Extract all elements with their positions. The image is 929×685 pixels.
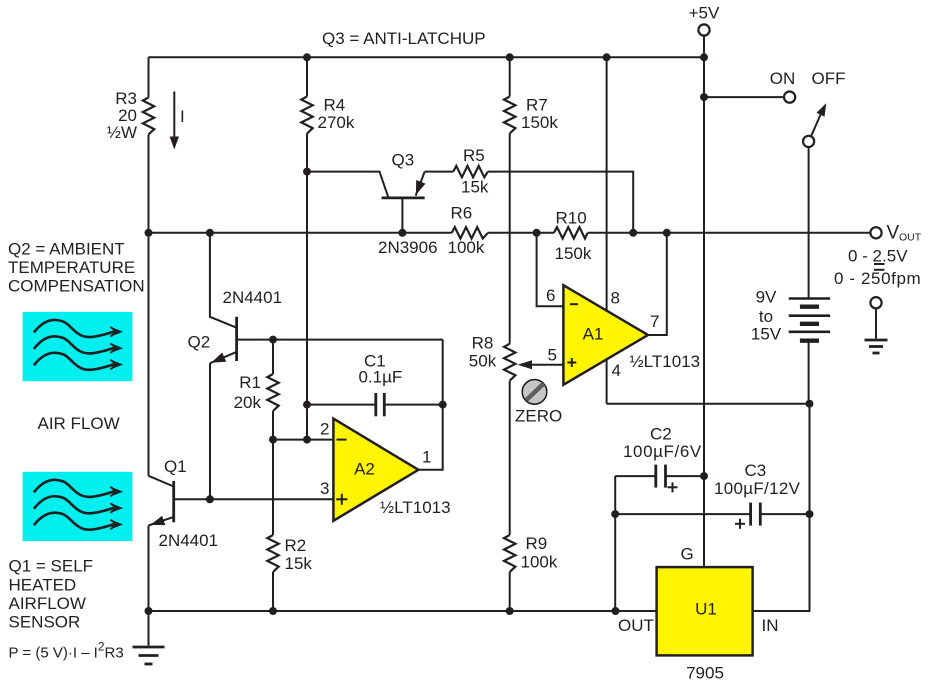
- svg-text:5: 5: [548, 346, 557, 365]
- svg-text:20k: 20k: [234, 393, 262, 412]
- svg-text:HEATED: HEATED: [9, 576, 77, 595]
- wire R7 column top: [509, 57, 511, 96]
- svg-text:OFF: OFF: [812, 69, 846, 88]
- svg-text:270k: 270k: [318, 113, 355, 132]
- capacitor C2: [615, 465, 704, 488]
- svg-text:150k: 150k: [521, 113, 558, 132]
- wire C2/C3 stub column: [614, 476, 616, 611]
- resistor R2: [267, 535, 278, 572]
- svg-text:2: 2: [320, 420, 329, 439]
- wire A2 feedback vertical: [418, 340, 442, 470]
- svg-text:C3: C3: [745, 461, 767, 480]
- svg-text:½LT1013: ½LT1013: [380, 498, 451, 517]
- node Q3 base-line junction: [303, 168, 311, 176]
- resistor R4: [301, 97, 312, 134]
- svg-text:C2: C2: [650, 425, 672, 444]
- svg-text:9V: 9V: [756, 288, 777, 307]
- label 9V to 15V: [751, 288, 782, 344]
- potentiometer R8: [504, 344, 515, 381]
- node C1 right: [439, 401, 447, 409]
- resistor R9: [504, 535, 515, 572]
- wire supply line behind A1 (pins 8/4): [606, 57, 608, 403]
- svg-text:0 - 2.5V: 0 - 2.5V: [848, 247, 908, 266]
- svg-text:150k: 150k: [555, 244, 592, 263]
- svg-text:7: 7: [650, 312, 659, 331]
- node pin2/R1: [269, 436, 277, 444]
- transistor Q1 collector (from left rail): [149, 476, 174, 487]
- svg-text:½LT1013: ½LT1013: [630, 352, 701, 371]
- label R8 50k: [469, 334, 497, 371]
- svg-text:50k: 50k: [469, 352, 497, 371]
- wire A1 output pin7: [648, 233, 667, 335]
- node pin7 junction: [663, 229, 671, 237]
- label A1 pins and name: [546, 286, 700, 380]
- svg-text:ZERO: ZERO: [515, 407, 562, 426]
- wire R2 lower lead / column: [272, 440, 274, 535]
- wire R8 to R9: [509, 381, 511, 535]
- resistor R1: [267, 374, 278, 411]
- svg-text:R2: R2: [285, 536, 307, 555]
- wire A1 pin5 with wiper arrow: [518, 360, 564, 369]
- transistor Q3 base wire: [401, 198, 403, 233]
- wire R4 column: [306, 57, 308, 96]
- ground symbol left: [133, 611, 165, 664]
- label Q2 = AMBIENT TEMPERATURE COMPENSATION: [8, 240, 145, 296]
- node supply top: [603, 53, 611, 61]
- svg-text:1: 1: [422, 448, 431, 467]
- node pin2/R4column: [303, 436, 311, 444]
- node switch feed junction: [700, 93, 708, 101]
- svg-text:I: I: [180, 107, 185, 126]
- label R2 15k: [285, 536, 313, 573]
- label R6 100k: [448, 204, 485, 258]
- label R7 150k: [521, 96, 558, 133]
- svg-text:R9: R9: [526, 534, 548, 553]
- wire R4 bottom down to pin2 wire: [306, 134, 308, 440]
- node R7 top: [506, 53, 514, 61]
- wire Q2 base to R1/C1: [237, 339, 443, 341]
- svg-text:OUT: OUT: [618, 616, 654, 635]
- wire switch to battery: [808, 147, 810, 298]
- svg-text:G: G: [681, 545, 694, 564]
- svg-text:COMPENSATION: COMPENSATION: [8, 277, 145, 296]
- svg-text:100µF/6V: 100µF/6V: [623, 442, 702, 461]
- svg-text:15k: 15k: [461, 178, 489, 197]
- node +5V rail junction: [700, 53, 708, 61]
- wire A2 pin2 input: [273, 439, 333, 441]
- transistor Q3 bar: [382, 196, 425, 199]
- node Q1 base / Q2 emitter junction: [206, 495, 214, 503]
- label C3: [714, 461, 801, 529]
- battery B1 9V-15V: [789, 299, 830, 341]
- current arrow I: [170, 92, 185, 150]
- svg-text:2N3906: 2N3906: [378, 238, 438, 257]
- svg-text:to: to: [759, 307, 773, 326]
- svg-text:15k: 15k: [285, 554, 313, 573]
- node Q2 collector junction: [206, 229, 214, 237]
- op-amp A2: [333, 419, 418, 521]
- label R3 20 1/2W: [107, 89, 137, 142]
- wire R9 to ground rail: [509, 572, 511, 611]
- svg-text:100k: 100k: [521, 553, 558, 572]
- label A2 pins and name: [320, 420, 451, 518]
- svg-text:R6: R6: [451, 204, 473, 223]
- transistor Q2 collector wire: [210, 233, 237, 328]
- svg-text:15V: 15V: [751, 325, 782, 344]
- svg-text:0.1µF: 0.1µF: [359, 368, 403, 387]
- svg-text:7905: 7905: [686, 664, 724, 683]
- resistor R6: [452, 227, 488, 238]
- label Q1 = SELF HEATED AIRFLOW SENSOR: [9, 557, 94, 632]
- svg-text:A2: A2: [354, 460, 375, 479]
- node R4 top: [303, 53, 311, 61]
- label C2: [623, 425, 702, 493]
- svg-text:AIR FLOW: AIR FLOW: [38, 414, 120, 433]
- terminal VOUT: [870, 223, 921, 244]
- wire R1 bottom lead: [272, 411, 274, 440]
- svg-text:6: 6: [546, 286, 555, 305]
- op-amp A1: [563, 285, 648, 385]
- resistor R5: [453, 166, 488, 177]
- wire ground rail: [149, 610, 657, 612]
- transistor Q3 emitter with arrow: [416, 172, 454, 196]
- svg-text:AIRFLOW: AIRFLOW: [9, 594, 86, 613]
- airflow box upper: [23, 312, 133, 381]
- svg-text:R10: R10: [556, 209, 587, 228]
- svg-text:Q2: Q2: [188, 333, 211, 352]
- label C1 0.1uF: [359, 352, 403, 387]
- svg-text:OUT: OUT: [899, 232, 922, 244]
- capacitor C1: [307, 393, 443, 416]
- node R5 drop junction: [629, 229, 637, 237]
- svg-text:100µF/12V: 100µF/12V: [714, 479, 801, 498]
- svg-text:2N4401: 2N4401: [223, 288, 283, 307]
- svg-text:8: 8: [611, 289, 620, 308]
- label R10 150k: [555, 209, 592, 264]
- svg-text:R8: R8: [472, 334, 494, 353]
- svg-text:4: 4: [612, 361, 621, 380]
- svg-text:R4: R4: [324, 96, 346, 115]
- label R9 100k: [521, 534, 558, 572]
- svg-text:R5: R5: [463, 146, 485, 165]
- svg-text:100k: 100k: [448, 238, 485, 257]
- transistor Q1 bar: [172, 481, 175, 522]
- svg-text:TEMPERATURE: TEMPERATURE: [8, 258, 135, 277]
- wire left rail middle: [148, 135, 150, 476]
- node pin4/battery junction: [806, 400, 814, 408]
- node C3 right: [806, 510, 814, 518]
- svg-text:ON: ON: [770, 69, 796, 88]
- node C3 left: [611, 510, 619, 518]
- node rail/vout-line junction: [145, 229, 153, 237]
- wire A1 pin4 to battery column: [607, 403, 810, 405]
- terminal +5V: [689, 4, 720, 568]
- svg-text:2N4401: 2N4401: [159, 531, 219, 550]
- wire A1 pin6 input: [537, 233, 564, 306]
- node Q3 base on VOUT line: [398, 229, 406, 237]
- wire VOUT line left section: [149, 232, 452, 234]
- svg-text:R7: R7: [526, 96, 548, 115]
- transistor Q2 bar: [235, 317, 238, 361]
- resistor R7: [504, 97, 515, 134]
- label ON OFF: [770, 69, 846, 88]
- transistor Q2 emitter: [210, 352, 237, 499]
- resistor R3: [143, 98, 154, 135]
- node R10 left junction: [533, 229, 541, 237]
- svg-text:3: 3: [320, 479, 329, 498]
- wire battery column lower: [753, 404, 810, 611]
- svg-text:½W: ½W: [107, 123, 137, 142]
- svg-text:IN: IN: [762, 616, 779, 635]
- wire VOUT line mid section: [488, 232, 554, 234]
- wire R1 top lead: [272, 340, 274, 374]
- switch ON terminal: [784, 92, 795, 103]
- transistor Q3 collector wire: [307, 172, 389, 198]
- resistor R10: [554, 227, 588, 238]
- capacitor C3: [615, 503, 809, 526]
- wire top +5V rail: [149, 56, 705, 58]
- svg-text:V: V: [887, 223, 900, 244]
- switch pole and lever: [803, 103, 826, 147]
- svg-text:+5V: +5V: [689, 4, 720, 23]
- label R1 20k: [234, 373, 262, 412]
- airflow box lower: [23, 472, 133, 541]
- svg-text:Q3 = ANTI-LATCHUP: Q3 = ANTI-LATCHUP: [322, 29, 486, 48]
- label output range: [834, 247, 921, 289]
- wire to switch ON terminal: [704, 96, 784, 98]
- transistor Q1 emitter with arrow: [149, 516, 174, 611]
- svg-text:0 - 250fpm: 0 - 250fpm: [834, 269, 921, 288]
- wire battery to U1 IN column: [808, 341, 810, 404]
- svg-text:A1: A1: [583, 325, 604, 344]
- svg-text:U1: U1: [695, 600, 717, 619]
- wire R5 to VOUT line: [488, 172, 633, 233]
- svg-text:R1: R1: [239, 373, 261, 392]
- node C1 left: [303, 401, 311, 409]
- regulator U1 7905: [657, 567, 753, 655]
- node R1 top: [269, 336, 277, 344]
- trimmer screw ZERO: [515, 380, 562, 426]
- terminal output ground: [865, 297, 888, 353]
- transistor Q1 base wire to A2 pin3: [174, 498, 334, 500]
- node rail dots: [145, 607, 620, 615]
- label R4 270k: [318, 96, 355, 133]
- svg-text:Q3: Q3: [392, 151, 415, 170]
- svg-text:Q1 = SELF: Q1 = SELF: [9, 557, 94, 576]
- wire VOUT line right section: [588, 232, 871, 234]
- label R5 15k: [461, 146, 489, 197]
- svg-text:Q2 = AMBIENT: Q2 = AMBIENT: [8, 240, 125, 259]
- wire left rail upper (R3 leads): [148, 57, 150, 97]
- svg-text:Q1: Q1: [164, 457, 187, 476]
- svg-text:SENSOR: SENSOR: [9, 613, 81, 632]
- node C2 right on +5V/G line: [700, 472, 708, 480]
- wire R2 to ground rail: [272, 572, 274, 611]
- wire R7 to R8: [509, 134, 511, 344]
